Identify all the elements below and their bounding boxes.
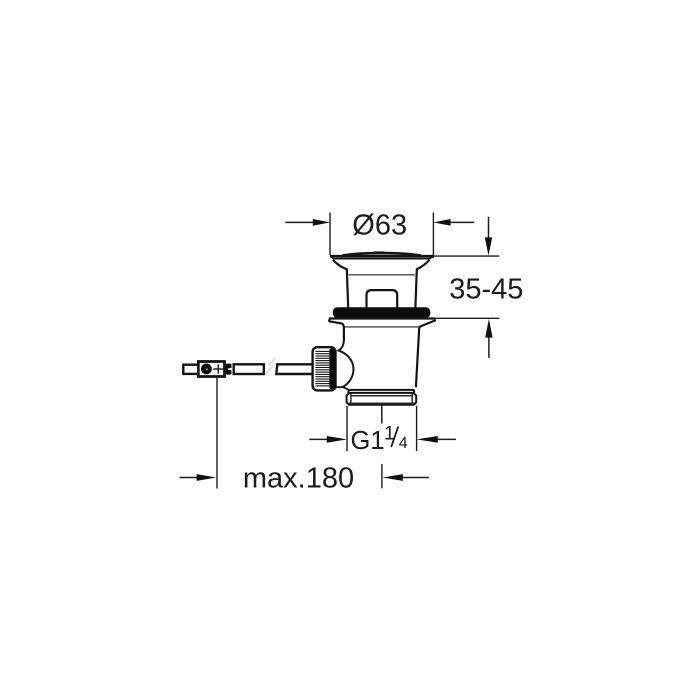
gasket (black seal ring) [333,307,431,318]
knurled knob body [313,347,336,390]
dim Ø63 right extension line [432,213,434,258]
dim max.180 right extension line [381,464,383,488]
dim max.180 left arrow [180,477,199,479]
flange right edge and body right side [416,319,435,387]
svg-text:4: 4 [399,435,408,452]
clip connector [226,364,232,369]
svg-text:G1: G1 [351,427,385,455]
dim 35-45 top arrow [488,217,490,238]
body bottom line [348,389,415,391]
pull rod segment 2 [276,364,313,374]
thread band outline [347,393,417,405]
pull rod segment 1 [234,364,264,374]
cap dome center ridge [374,251,385,253]
thread inner bottom line [349,402,415,404]
left stub [183,365,198,374]
dim G1 1/4 left extension line [346,406,348,451]
flange top line [329,317,436,319]
thread inner top line [351,395,412,397]
leader from thread center [381,405,383,423]
knob knurl stripes [315,351,330,386]
dim max.180 right arrow [402,477,429,479]
dim Ø63 right arrow [450,221,474,223]
flange inner line [345,326,419,328]
rod break marks [269,358,276,366]
dim G1 1/4 right arrow [437,438,456,440]
svg-text:35-45: 35-45 [449,273,523,305]
dim 35-45 top extension line [434,255,500,257]
thread inner left vertical [350,394,352,405]
cam arc on body [339,340,354,387]
thread inner right vertical [411,394,413,405]
pivot ball (black dot) [201,364,212,375]
dim Ø63 left extension line [329,213,331,256]
neck flare left [333,260,348,308]
cap disc bottom line [333,258,430,260]
neck flare right [415,260,429,308]
waist horizontal line [349,274,415,276]
pivot cross [213,368,223,370]
dim G1 1/4 left arrow [309,438,328,440]
thread neck right [413,390,415,393]
arc to body bottom link [336,387,348,389]
flange left edge [329,319,344,341]
knob right shaded band [329,349,335,390]
dim 35-45 bottom extension line [436,317,500,319]
pivot block [198,362,224,377]
dim 35-45 bottom arrow [488,338,490,358]
cap disc left bevel [330,256,334,259]
svg-text:max.180: max.180 [243,463,354,495]
dim G1 1/4 right extension line [416,406,418,451]
cap dome arc [342,253,421,256]
plug keeper rounded rect [367,290,398,308]
svg-text:Ø63: Ø63 [352,210,407,242]
thread neck left [348,390,350,393]
cap disc top line [330,255,434,257]
cap disc right bevel [430,256,434,259]
dim Ø63 left arrow [285,221,314,223]
dim max.180 left extension line [216,377,218,488]
